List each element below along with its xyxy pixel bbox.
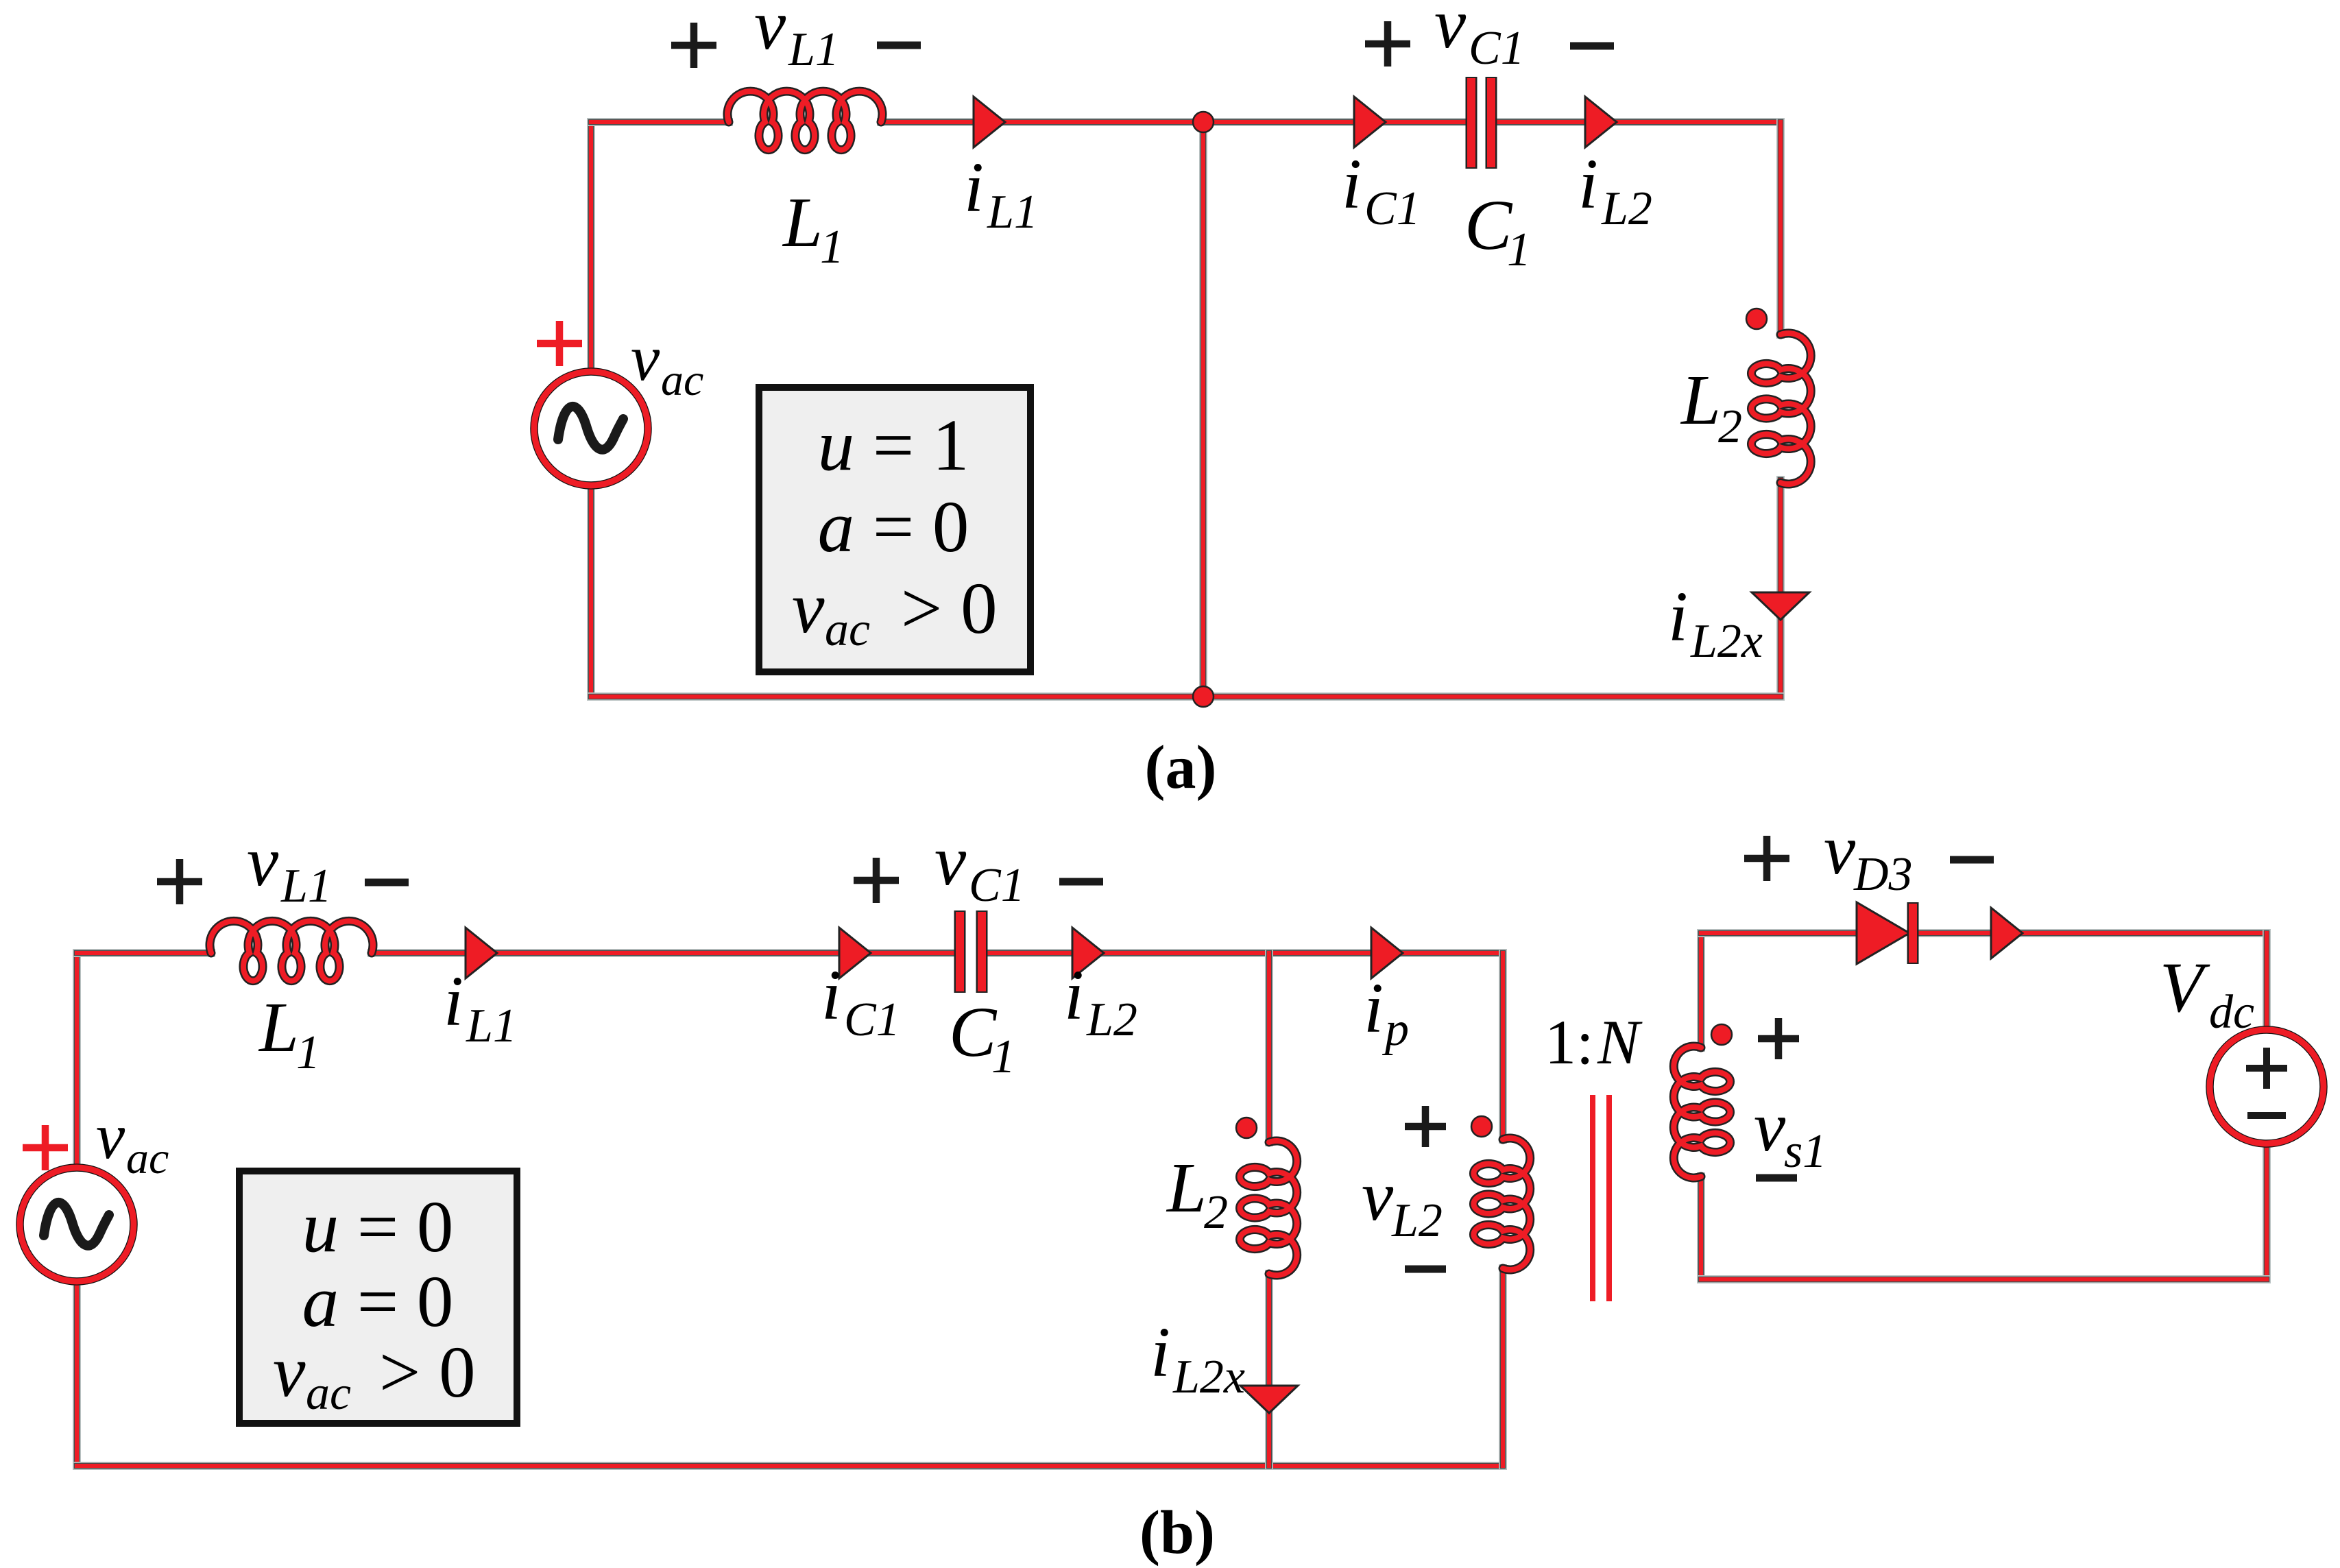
svg-text:C: C bbox=[949, 993, 998, 1072]
svg-text:> 0: > 0 bbox=[379, 1332, 476, 1413]
svg-text:> 0: > 0 bbox=[901, 568, 998, 649]
polarity + of v_D3 (b) bbox=[1744, 836, 1789, 881]
current arrow i_C1 (a) bbox=[1354, 97, 1386, 147]
svg-text:i: i bbox=[1150, 1313, 1170, 1392]
svg-text:a = 0: a = 0 bbox=[818, 487, 969, 568]
transformer secondary winding (b) bbox=[1674, 1046, 1730, 1178]
wire: (b) top, C1 to primary corner bbox=[986, 949, 1503, 957]
svg-text:dc: dc bbox=[2209, 986, 2254, 1039]
svg-text:L1: L1 bbox=[466, 1000, 517, 1052]
circuit (b) bbox=[20, 810, 2324, 1567]
polarity - of v_C1 (b) bbox=[1059, 878, 1103, 886]
transformer core 1:N (b) bbox=[1593, 1095, 1609, 1301]
wire: (a) top, L1 to C1 (through node) bbox=[881, 118, 1467, 126]
wire: (a) left vertical lower segment bbox=[587, 485, 595, 697]
svg-text:i: i bbox=[821, 956, 841, 1035]
inductor L1 (b) bbox=[210, 921, 373, 980]
polarity - of v_C1 (a) bbox=[1570, 43, 1614, 50]
wire: (b) secondary top, right of diode bbox=[1918, 929, 2267, 937]
polarity + of v_ac source (a) bbox=[537, 321, 582, 366]
wire: (a) right vertical above L2 bbox=[1776, 122, 1785, 335]
svg-text:v: v bbox=[1434, 0, 1467, 63]
polarity + of v_ac source (b) bbox=[23, 1125, 68, 1170]
mode box (b) bbox=[239, 1171, 517, 1423]
wire: (b) top, L1 to C1 bbox=[372, 949, 956, 957]
inductor L1 (a) bbox=[727, 91, 882, 150]
current arrow i_L2x (b) bbox=[1240, 1386, 1298, 1413]
wire: (b) L2 branch lower bbox=[1265, 1274, 1273, 1466]
svg-text:v: v bbox=[1754, 1087, 1786, 1166]
dc source V_dc (b) bbox=[2210, 1030, 2324, 1144]
svg-text:i: i bbox=[964, 148, 984, 227]
svg-text:C1: C1 bbox=[969, 859, 1025, 912]
wire: (b) secondary right upper bbox=[2263, 933, 2271, 1030]
polarity + of v_L2 (b) bbox=[1405, 1106, 1446, 1147]
polarity + of v_s1 (b) bbox=[1758, 1018, 1799, 1059]
svg-text:i: i bbox=[1578, 145, 1598, 224]
inductor L2 (b) bbox=[1240, 1141, 1296, 1275]
svg-text:ac: ac bbox=[825, 603, 870, 656]
svg-text:2: 2 bbox=[1718, 400, 1742, 453]
svg-text:i: i bbox=[444, 962, 463, 1041]
svg-text:L2x: L2x bbox=[1172, 1351, 1245, 1403]
polarity + of v_L1 (a) bbox=[671, 23, 716, 68]
svg-text:L: L bbox=[1680, 361, 1721, 439]
svg-text:1:: 1: bbox=[1545, 1007, 1594, 1077]
svg-text:C1: C1 bbox=[1364, 182, 1421, 235]
polarity + of v_C1 (a) bbox=[1365, 21, 1410, 67]
svg-text:ac: ac bbox=[126, 1133, 169, 1183]
svg-text:(b): (b) bbox=[1139, 1499, 1215, 1567]
svg-text:L1: L1 bbox=[987, 186, 1038, 239]
svg-text:L2x: L2x bbox=[1690, 615, 1763, 668]
wire: (b) secondary right lower bbox=[2263, 1144, 2271, 1279]
svg-text:v: v bbox=[96, 1100, 125, 1172]
svg-text:L: L bbox=[1166, 1148, 1207, 1227]
capacitor C1 (b) bbox=[954, 910, 966, 993]
polarity - of v_D3 (b) bbox=[1950, 856, 1994, 864]
wire: (b) top, source to L1 bbox=[77, 949, 211, 957]
phase dot of transformer secondary (b) bbox=[1711, 1024, 1732, 1045]
svg-text:L1: L1 bbox=[280, 860, 332, 913]
svg-text:1: 1 bbox=[1507, 224, 1531, 276]
svg-text:C1: C1 bbox=[844, 993, 900, 1046]
wire: (a) top, source to L1 bbox=[591, 118, 729, 126]
svg-text:u = 0: u = 0 bbox=[302, 1187, 454, 1268]
svg-text:i: i bbox=[1342, 145, 1362, 224]
svg-text:i: i bbox=[1668, 577, 1688, 656]
svg-text:i: i bbox=[1064, 956, 1084, 1035]
svg-text:v: v bbox=[1362, 1157, 1394, 1235]
mode box (a) bbox=[759, 387, 1030, 672]
circuit (a) bbox=[534, 0, 1811, 801]
svg-text:ac: ac bbox=[306, 1367, 351, 1420]
wire: (b) secondary left lower bbox=[1697, 1177, 1705, 1279]
phase dot of L2 (a) bbox=[1746, 309, 1767, 329]
svg-text:L2: L2 bbox=[1601, 182, 1652, 235]
svg-text:i: i bbox=[1364, 969, 1384, 1048]
svg-text:v: v bbox=[934, 821, 967, 900]
current arrow i_L2 (a) bbox=[1585, 97, 1617, 147]
current arrow i_p (b) bbox=[1371, 928, 1403, 978]
wire: (b) secondary top, left of diode bbox=[1701, 929, 1855, 937]
current arrow i_L1 (a) bbox=[974, 97, 1005, 147]
wire: (a) left vertical upper segment bbox=[587, 122, 595, 372]
node dot top (a) bbox=[1193, 112, 1214, 132]
svg-text:v: v bbox=[754, 0, 786, 64]
current arrow i_L2x (a) bbox=[1752, 592, 1809, 620]
svg-text:v: v bbox=[792, 568, 825, 649]
current arrow i_L1 (b) bbox=[466, 928, 497, 978]
wire: (b) primary branch lower bbox=[1499, 1268, 1507, 1466]
inductor L2 (a) bbox=[1751, 333, 1811, 484]
polarity - of v_s1 (b) bbox=[1756, 1174, 1797, 1182]
phase dot of L2 (b) bbox=[1236, 1118, 1257, 1138]
svg-text:p: p bbox=[1382, 1003, 1409, 1056]
wire: (b) primary branch upper bbox=[1499, 953, 1507, 1139]
svg-text:1: 1 bbox=[820, 221, 844, 274]
ac source v_ac (a) bbox=[534, 372, 648, 485]
svg-text:N: N bbox=[1597, 1007, 1643, 1077]
current arrow through D3 (b) bbox=[1991, 908, 2023, 958]
wire: (b) bottom bbox=[77, 1462, 1503, 1470]
svg-text:a = 0: a = 0 bbox=[302, 1262, 454, 1342]
svg-text:D3: D3 bbox=[1853, 848, 1913, 901]
svg-text:L: L bbox=[258, 988, 299, 1067]
capacitor C1 (a) bbox=[1466, 77, 1477, 169]
polarity - of v_L1 (b) bbox=[365, 879, 409, 886]
node dot bottom (a) bbox=[1193, 686, 1214, 707]
svg-text:v: v bbox=[631, 322, 660, 394]
svg-text:L1: L1 bbox=[788, 23, 839, 76]
wire: (a) middle branch bbox=[1199, 122, 1207, 697]
phase dot of transformer primary (b) bbox=[1471, 1116, 1492, 1137]
svg-text:L2: L2 bbox=[1391, 1194, 1443, 1247]
wire: (b) secondary bottom bbox=[1701, 1275, 2267, 1283]
wire: (a) top, C1 to right corner bbox=[1495, 118, 1781, 126]
diode D3 (b) bbox=[1857, 902, 1909, 964]
wire: (b) left vertical lower bbox=[73, 1281, 81, 1466]
polarity + of v_C1 (b) bbox=[854, 858, 899, 903]
ac source v_ac (b) bbox=[20, 1168, 134, 1281]
svg-text:L: L bbox=[782, 183, 823, 262]
current arrow i_L2 (b) bbox=[1072, 928, 1104, 978]
svg-text:1: 1 bbox=[991, 1030, 1015, 1083]
svg-text:v: v bbox=[1824, 810, 1856, 889]
svg-text:1: 1 bbox=[296, 1026, 320, 1079]
wire: (a) right vertical below L2 bbox=[1776, 480, 1785, 697]
svg-text:ac: ac bbox=[661, 355, 703, 405]
svg-text:V: V bbox=[2160, 948, 2210, 1027]
wire: (b) secondary left upper bbox=[1697, 933, 1705, 1048]
wire: (b) L2 branch upper bbox=[1265, 953, 1273, 1142]
svg-text:2: 2 bbox=[1204, 1186, 1228, 1239]
polarity - of v_L1 (a) bbox=[877, 42, 921, 49]
transformer primary winding v_L2 (b) bbox=[1473, 1138, 1530, 1270]
wire: (a) bottom bbox=[591, 692, 1781, 701]
svg-text:(a): (a) bbox=[1145, 734, 1217, 801]
svg-text:L2: L2 bbox=[1086, 993, 1137, 1046]
svg-text:C: C bbox=[1464, 186, 1513, 265]
current arrow i_C1 (b) bbox=[839, 928, 871, 978]
polarity + of v_L1 (b) bbox=[157, 859, 202, 904]
svg-text:v: v bbox=[247, 822, 279, 901]
svg-text:s1: s1 bbox=[1784, 1125, 1826, 1178]
polarity - of v_L2 (b) bbox=[1405, 1266, 1446, 1273]
svg-text:u = 1: u = 1 bbox=[818, 405, 969, 486]
wire: (b) left vertical upper bbox=[73, 953, 81, 1168]
svg-text:C1: C1 bbox=[1469, 22, 1525, 75]
svg-text:v: v bbox=[273, 1331, 306, 1412]
